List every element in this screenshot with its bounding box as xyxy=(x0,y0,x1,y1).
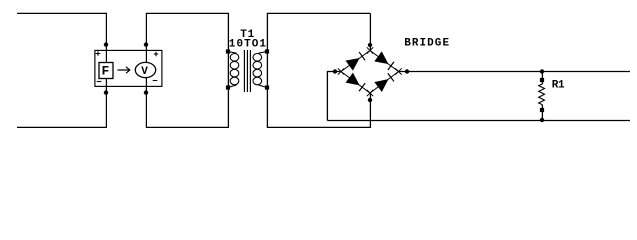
wire output top rail from bridge plus pin xyxy=(399,71,631,73)
minus polarity mark V side xyxy=(153,80,158,82)
wire bottom rail of secondary loop xyxy=(267,126,370,128)
transformer T1 secondary lead bottom xyxy=(259,85,268,88)
resistor R1 bottom lead xyxy=(541,105,543,121)
junction bridge top pin xyxy=(368,43,372,47)
wire transformer secondary side vertical xyxy=(266,13,268,128)
transformer T1 pin primary bottom xyxy=(226,85,230,89)
transformer T1 primary winding xyxy=(230,54,239,85)
resistor R1 pin bottom xyxy=(540,108,544,112)
bridge diode upper-left (anode left, cathode top) xyxy=(346,51,366,70)
wire bottom rail of input loop xyxy=(17,126,107,128)
junction bridge right pin xyxy=(405,69,409,73)
F block of dependent source xyxy=(99,63,113,79)
wire bridge minus pin stub xyxy=(327,71,341,73)
svg-text:BRIDGE: BRIDGE xyxy=(404,38,450,50)
bridge diamond edges xyxy=(341,51,399,94)
wire transformer primary side vertical xyxy=(227,13,229,128)
svg-text:10TO1: 10TO1 xyxy=(229,39,267,51)
resistor R1 zigzag xyxy=(539,84,545,105)
arrow F to V xyxy=(118,67,130,73)
plus polarity mark V side xyxy=(154,52,159,57)
wire top rail of input loop xyxy=(17,12,107,14)
wire bottom rail of primary loop xyxy=(146,126,228,128)
dependent source F-to-V outer box xyxy=(95,50,162,86)
transformer T1 secondary winding xyxy=(253,54,262,85)
bridge pin right (plus) xyxy=(395,68,401,74)
svg-text:F: F xyxy=(102,64,110,79)
svg-text:V: V xyxy=(141,66,148,78)
junction R1 bottom rail xyxy=(540,118,544,122)
wire through V source branch xyxy=(145,13,147,128)
wire top rail of primary loop xyxy=(146,12,228,14)
transformer T1 pin primary top xyxy=(226,49,230,53)
transformer T1 core xyxy=(244,50,250,92)
svg-text:R1: R1 xyxy=(552,80,565,92)
bridge pin top (AC) xyxy=(367,47,373,53)
wire bridge AC bottom pin down to bottom rail xyxy=(369,93,371,128)
plus polarity mark F side xyxy=(96,51,101,56)
junction R1 top rail xyxy=(540,69,544,73)
bridge pin bottom (AC) xyxy=(367,90,373,96)
transformer T1 primary lead top xyxy=(228,52,237,54)
junction F branch bottom xyxy=(104,90,108,94)
junction F branch top xyxy=(104,42,108,46)
V source circle xyxy=(135,62,155,77)
transformer T1 secondary lead top xyxy=(259,52,268,54)
wire top rail of secondary loop xyxy=(267,12,370,14)
bridge diode lower-right (anode bottom, cathode right) xyxy=(374,72,394,92)
junction V branch bottom xyxy=(144,90,148,94)
wire through F controlling branch xyxy=(105,13,107,128)
junction V branch top xyxy=(144,42,148,46)
minus polarity mark F side xyxy=(97,81,102,83)
resistor R1 pin top xyxy=(540,78,544,82)
transformer T1 pin secondary top xyxy=(265,49,269,53)
wire top rail down to bridge AC pin xyxy=(369,13,371,50)
resistor R1 top lead xyxy=(541,71,543,84)
bridge diode upper-right (anode top, cathode right) xyxy=(374,51,394,70)
bridge diode lower-left (anode left, cathode bottom) xyxy=(346,73,366,92)
transformer T1 primary lead bottom xyxy=(228,85,237,88)
junction bridge bottom pin xyxy=(368,98,372,102)
wire bridge minus down leg xyxy=(326,71,328,121)
junction bridge left pin xyxy=(333,69,337,73)
bridge pin left (minus) xyxy=(338,68,344,74)
transformer T1 pin secondary bottom xyxy=(265,85,269,89)
wire output bottom rail xyxy=(327,120,630,122)
